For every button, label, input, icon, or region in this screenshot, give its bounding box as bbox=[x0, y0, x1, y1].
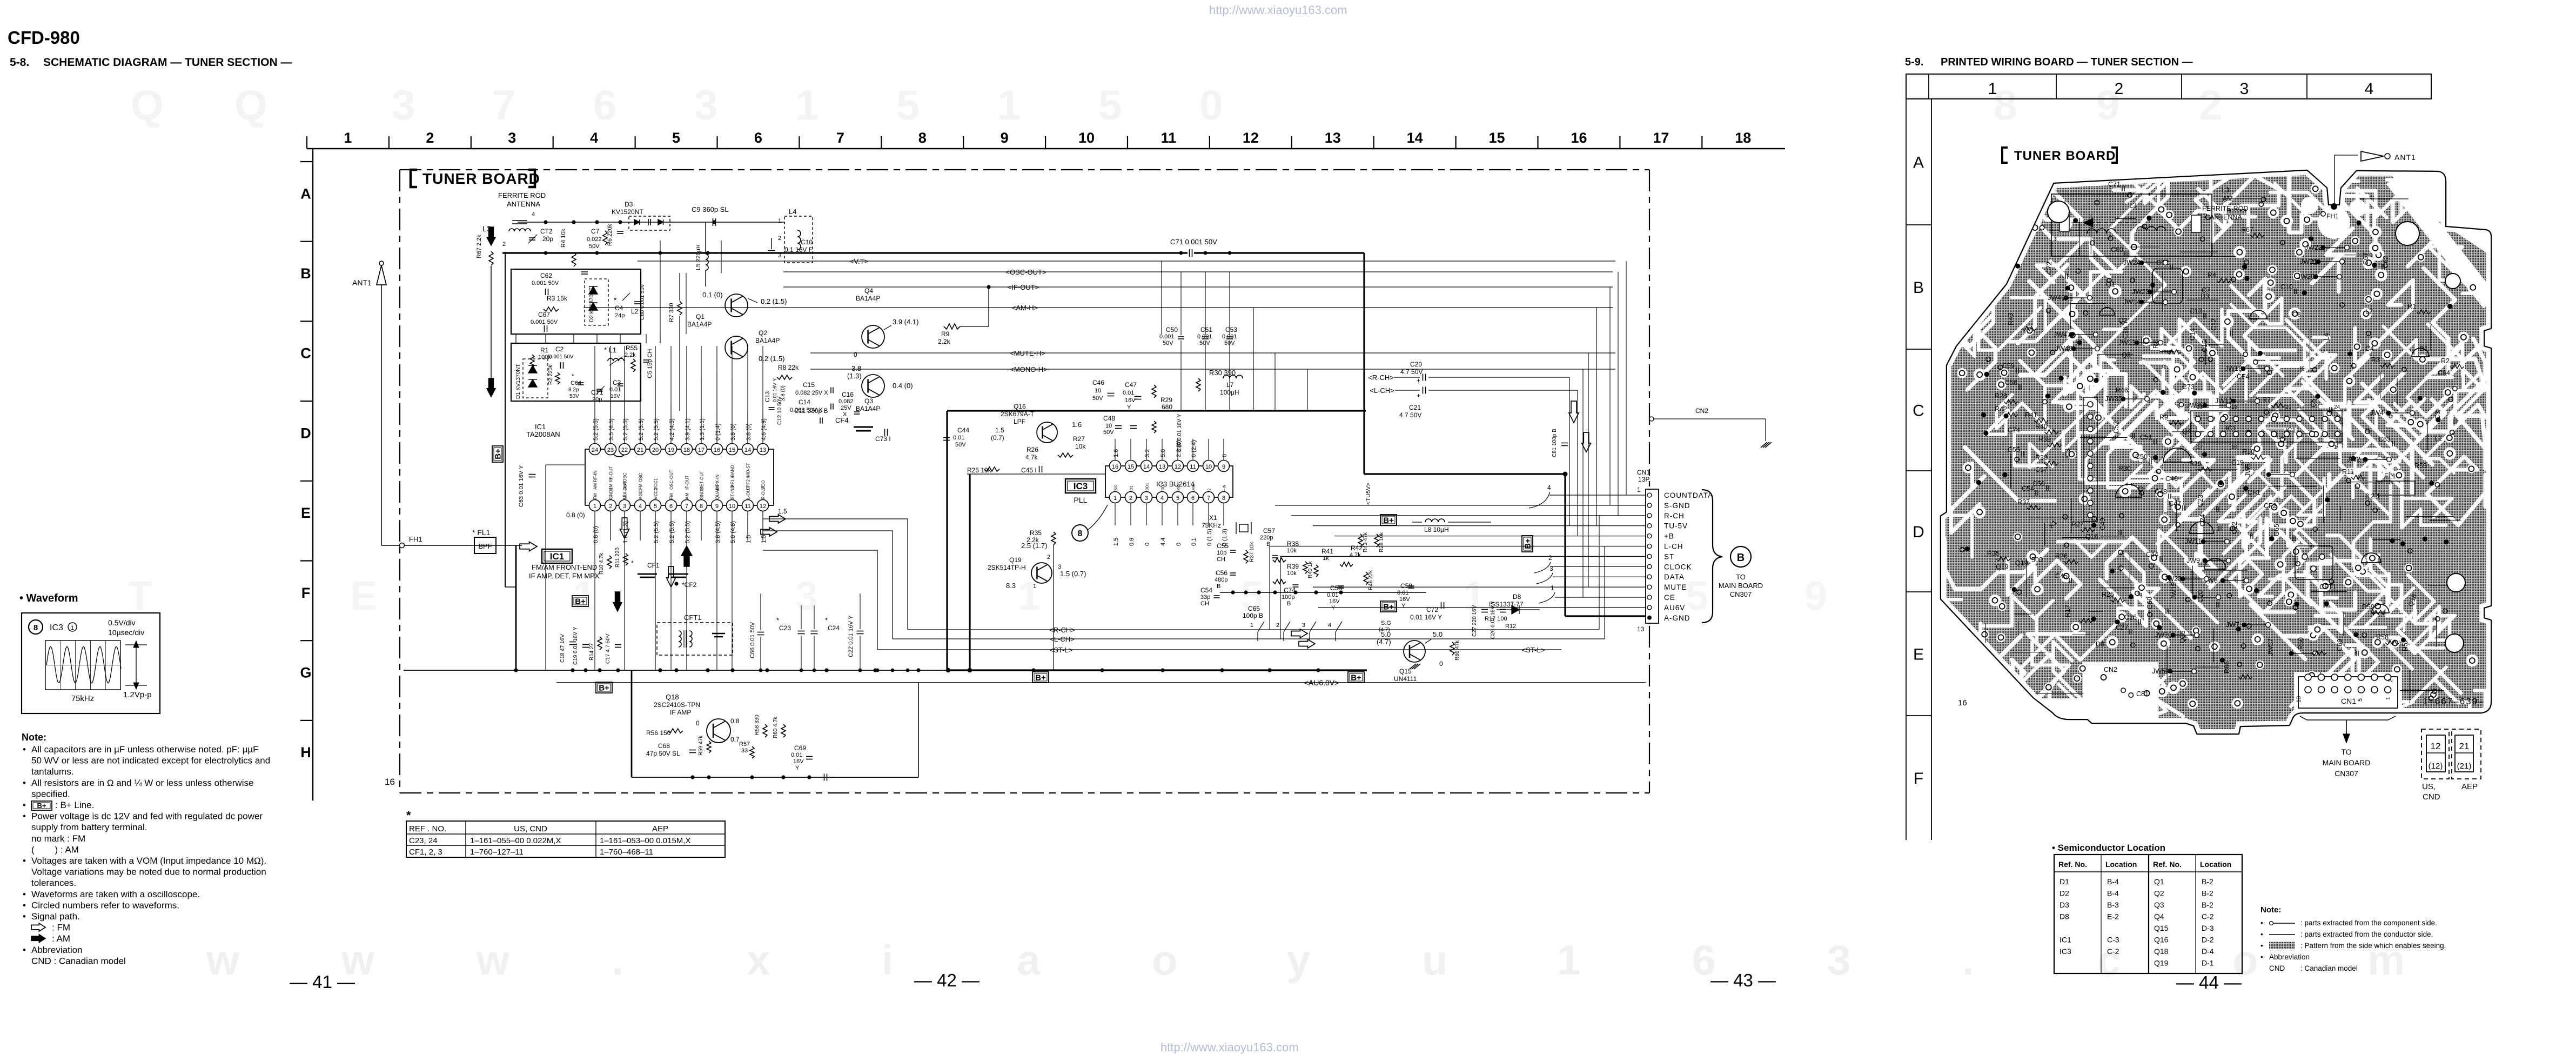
svg-text:Q3: Q3 bbox=[2122, 351, 2131, 359]
svg-text:3.8 (4.5): 3.8 (4.5) bbox=[715, 521, 721, 543]
svg-text:FM OSC: FM OSC bbox=[639, 473, 643, 490]
svg-text:C19 0.01 16V Y: C19 0.01 16V Y bbox=[573, 626, 579, 665]
svg-text:C64: C64 bbox=[2438, 369, 2450, 377]
svg-text:B+: B+ bbox=[494, 449, 503, 459]
wire R67 down bbox=[491, 266, 492, 378]
svg-text:3.9 (4.1): 3.9 (4.1) bbox=[893, 318, 918, 326]
svg-text:2SC2410S-TPN: 2SC2410S-TPN bbox=[654, 701, 700, 709]
svg-text:10: 10 bbox=[1095, 388, 1101, 394]
svg-text:JW21: JW21 bbox=[2300, 258, 2317, 265]
svg-text:JW18: JW18 bbox=[2225, 365, 2242, 372]
svg-text:3.2: 3.2 bbox=[1144, 449, 1151, 457]
svg-text:L3: L3 bbox=[2222, 186, 2229, 194]
svg-text:L2: L2 bbox=[2365, 308, 2373, 315]
svg-text:C13: C13 bbox=[764, 391, 771, 402]
wire stair R-CH from IC1 bbox=[763, 519, 908, 630]
wires into CN1 bbox=[1549, 495, 1646, 496]
svg-text:C46: C46 bbox=[2165, 475, 2178, 483]
misc long verticals right area bbox=[1599, 515, 1600, 630]
svg-text:1–161–053–00 0.015M,X: 1–161–053–00 0.015M,X bbox=[600, 836, 690, 845]
svg-text:o: o bbox=[1152, 936, 1178, 984]
svg-text:D1 KV1370NT: D1 KV1370NT bbox=[515, 364, 521, 399]
svg-text:2: 2 bbox=[1129, 495, 1132, 502]
svg-text:1: 1 bbox=[344, 130, 352, 146]
svg-text:• Waveform: • Waveform bbox=[19, 592, 78, 604]
svg-text:13: 13 bbox=[2296, 696, 2302, 703]
svg-text:B-2: B-2 bbox=[2202, 877, 2213, 886]
svg-text:20: 20 bbox=[2285, 404, 2292, 410]
svg-text:JW47: JW47 bbox=[2054, 331, 2071, 338]
svg-text:15: 15 bbox=[729, 447, 735, 453]
wire right side verticals to CN1 bbox=[1626, 261, 1627, 495]
svg-text:1.5: 1.5 bbox=[995, 426, 1004, 434]
svg-text:R41: R41 bbox=[2025, 411, 2037, 419]
svg-text:C2: C2 bbox=[555, 345, 564, 353]
svg-text:Waveforms are taken with a osc: Waveforms are taken with a oscilloscope. bbox=[31, 889, 200, 899]
resistor R9 2.2k bbox=[944, 324, 960, 329]
wire antenna cluster verticals bbox=[660, 241, 661, 334]
svg-text:12: 12 bbox=[1175, 464, 1181, 470]
svg-text:C62: C62 bbox=[540, 272, 552, 279]
pcb TO MAIN BOARD CN307 bbox=[2300, 716, 2396, 720]
svg-text:47p 50V SL: 47p 50V SL bbox=[646, 750, 680, 757]
svg-text:C10: C10 bbox=[2280, 283, 2293, 291]
svg-text:0.1 (0): 0.1 (0) bbox=[702, 291, 723, 299]
svg-text:2: 2 bbox=[2387, 679, 2394, 682]
svg-text:Q4: Q4 bbox=[864, 287, 873, 295]
svg-text:12: 12 bbox=[2431, 741, 2441, 751]
svg-text:2: 2 bbox=[426, 130, 434, 146]
svg-text:D8: D8 bbox=[2060, 912, 2069, 921]
pcb antenna box L3 bbox=[2051, 194, 2212, 256]
svg-text:50V: 50V bbox=[955, 442, 966, 448]
svg-text:L1: L1 bbox=[2434, 435, 2442, 442]
svg-text:— 43 —: — 43 — bbox=[1710, 970, 1776, 990]
svg-text:— 42 —: — 42 — bbox=[914, 970, 980, 990]
svg-text:(0.7): (0.7) bbox=[991, 434, 1004, 442]
svg-text:•: • bbox=[23, 811, 26, 822]
svg-text:2: 2 bbox=[1276, 622, 1279, 629]
svg-text:D3: D3 bbox=[2201, 292, 2209, 300]
svg-text:http://www.xiaoyu163.com: http://www.xiaoyu163.com bbox=[1160, 1040, 1299, 1054]
svg-text:C59: C59 bbox=[2002, 362, 2015, 370]
svg-text:10k: 10k bbox=[1287, 548, 1297, 554]
ground at CN2 bbox=[1761, 442, 1767, 448]
svg-text:: Pattern from the side which: : Pattern from the side which enables se… bbox=[2300, 942, 2446, 950]
svg-text:<V.T>: <V.T> bbox=[850, 257, 868, 265]
svg-text:0: 0 bbox=[854, 351, 857, 358]
svg-text:Voltage variations may be note: Voltage variations may be noted due to n… bbox=[31, 867, 266, 877]
wire thick verticals left bbox=[515, 545, 517, 670]
svg-text:C44: C44 bbox=[957, 426, 969, 434]
svg-text:C21: C21 bbox=[1409, 404, 1421, 411]
svg-text:5: 5 bbox=[896, 81, 920, 129]
svg-text:*CF2: *CF2 bbox=[682, 581, 697, 589]
svg-text:SCHEMATIC DIAGRAM — TUNER SECT: SCHEMATIC DIAGRAM — TUNER SECTION — bbox=[43, 56, 292, 69]
svg-text:*: * bbox=[614, 296, 617, 304]
svg-text:R41: R41 bbox=[1321, 548, 1333, 555]
wire thick rail to CN1 A-GND bbox=[1364, 473, 1565, 475]
svg-text:17: 17 bbox=[1653, 130, 1669, 146]
svg-text:Q1: Q1 bbox=[696, 313, 705, 321]
svg-text:C64: C64 bbox=[571, 380, 581, 386]
wire ANT1 to BPF horizontal bbox=[381, 545, 522, 546]
svg-text:.: . bbox=[612, 936, 623, 984]
pcb white clearance CN2 corner bbox=[2042, 662, 2158, 721]
svg-text:12: 12 bbox=[760, 503, 766, 510]
svg-text:BPF: BPF bbox=[478, 542, 492, 550]
svg-text:R7: R7 bbox=[2262, 396, 2271, 404]
svg-text:1: 1 bbox=[1988, 80, 1997, 98]
wire stair L-CH from IC1 bbox=[763, 531, 893, 639]
svg-text:1–760–127–11: 1–760–127–11 bbox=[470, 848, 524, 857]
svg-text:4: 4 bbox=[1160, 495, 1164, 502]
svg-text:0.9: 0.9 bbox=[1129, 538, 1135, 546]
svg-text:5.2 (5.5): 5.2 (5.5) bbox=[622, 418, 629, 441]
svg-text:BA1A4P: BA1A4P bbox=[687, 321, 712, 328]
svg-text:17: 17 bbox=[698, 447, 705, 453]
svg-text:7: 7 bbox=[1207, 495, 1210, 502]
svg-text:S-GND: S-GND bbox=[1664, 502, 1691, 510]
svg-text:D2: D2 bbox=[2060, 889, 2069, 898]
waveform Vp-p arrow bbox=[136, 645, 137, 685]
svg-text:C24: C24 bbox=[2199, 514, 2206, 526]
svg-text:50V: 50V bbox=[1163, 340, 1173, 346]
svg-text:<OSC-OUT>: <OSC-OUT> bbox=[1005, 268, 1046, 276]
svg-text:CF4: CF4 bbox=[2237, 373, 2250, 381]
svg-text:1.6: 1.6 bbox=[1072, 421, 1082, 429]
svg-text:C22 0.01 16V Y: C22 0.01 16V Y bbox=[848, 615, 854, 657]
wire cluster verticals to IC1 bbox=[515, 334, 516, 343]
svg-text:1.5: 1.5 bbox=[761, 535, 767, 543]
svg-text:13: 13 bbox=[760, 447, 766, 453]
svg-text:D3: D3 bbox=[2060, 900, 2069, 909]
schematic column ruler ticks and numbers bbox=[306, 136, 307, 149]
label IC3 PLL box bbox=[1065, 479, 1096, 493]
svg-text:R43: R43 bbox=[2007, 313, 2015, 325]
svg-text:Voltages are taken with a VOM: Voltages are taken with a VOM (Input imp… bbox=[31, 856, 266, 866]
svg-text:D3: D3 bbox=[625, 201, 633, 208]
wire thick vertical PLL inner bbox=[969, 474, 970, 670]
svg-text:3: 3 bbox=[694, 81, 717, 129]
svg-text:16V: 16V bbox=[611, 393, 620, 399]
svg-text:FH1: FH1 bbox=[409, 535, 422, 543]
svg-text:CN2: CN2 bbox=[1695, 407, 1708, 415]
svg-text:C23: C23 bbox=[2197, 495, 2204, 507]
svg-text:R28: R28 bbox=[1995, 392, 2007, 400]
svg-text:0.082 25V X: 0.082 25V X bbox=[795, 390, 828, 396]
svg-text:Q19: Q19 bbox=[1009, 556, 1022, 564]
svg-text:•: • bbox=[23, 744, 26, 755]
svg-text:C65: C65 bbox=[1248, 605, 1260, 612]
svg-text:C68: C68 bbox=[658, 742, 670, 750]
svg-text:1: 1 bbox=[593, 503, 596, 510]
svg-text:CN307: CN307 bbox=[1730, 590, 1752, 598]
svg-text:10: 10 bbox=[729, 503, 735, 510]
svg-text:1: 1 bbox=[71, 625, 74, 631]
svg-text:2: 2 bbox=[2199, 81, 2222, 129]
svg-text:C56: C56 bbox=[2032, 480, 2045, 488]
svg-text:R37 10k: R37 10k bbox=[1249, 542, 1255, 562]
svg-text:15: 15 bbox=[2231, 404, 2238, 410]
svg-text:R46: R46 bbox=[2116, 386, 2128, 394]
svg-text:C-3: C-3 bbox=[2107, 936, 2119, 944]
svg-text:4.7k: 4.7k bbox=[1350, 552, 1361, 558]
svg-text:JW22: JW22 bbox=[2305, 244, 2322, 251]
signal arrows open down right side bbox=[1569, 401, 1579, 423]
svg-text:C23: C23 bbox=[779, 624, 791, 632]
svg-text:IC3: IC3 bbox=[2060, 947, 2071, 956]
svg-text:6: 6 bbox=[593, 81, 616, 129]
svg-text:16V: 16V bbox=[1399, 596, 1410, 603]
svg-text:C11 330p B: C11 330p B bbox=[794, 407, 828, 415]
svg-text:Q2: Q2 bbox=[2154, 889, 2164, 898]
svg-text:F: F bbox=[301, 585, 311, 601]
svg-text:MAIN BOARD: MAIN BOARD bbox=[1719, 582, 1763, 590]
svg-text:20p: 20p bbox=[592, 396, 602, 403]
signal arrow open at IC1 L-OUT bbox=[761, 528, 777, 536]
svg-text:16: 16 bbox=[1571, 130, 1587, 146]
svg-text:FERRITE ROD: FERRITE ROD bbox=[498, 191, 546, 199]
svg-text:5.2 (5.5): 5.2 (5.5) bbox=[685, 521, 691, 543]
pcb grid header box bbox=[1906, 74, 2431, 99]
svg-text:R17 100: R17 100 bbox=[1485, 616, 1507, 622]
signal arrow FM into IC1 bbox=[520, 542, 537, 551]
svg-text:L4: L4 bbox=[2323, 333, 2330, 341]
svg-text:Q: Q bbox=[131, 81, 164, 129]
svg-text:Q1: Q1 bbox=[2106, 281, 2115, 288]
pcb white clearance CN1 area bbox=[2294, 672, 2402, 711]
svg-text:CH: CH bbox=[1200, 601, 1209, 607]
svg-text:R4: R4 bbox=[2208, 271, 2216, 279]
svg-text:C56: C56 bbox=[1216, 569, 1227, 577]
svg-text:+: + bbox=[1417, 377, 1420, 384]
svg-text:<TU5V>: <TU5V> bbox=[1365, 483, 1372, 505]
svg-text:Q16: Q16 bbox=[2154, 936, 2169, 944]
svg-text:C51: C51 bbox=[2140, 433, 2152, 441]
pcb white pads scattered bbox=[2445, 433, 2454, 443]
svg-text:B-2: B-2 bbox=[2202, 900, 2213, 909]
pcb transistor rings bbox=[2116, 484, 2142, 497]
svg-text:C53: C53 bbox=[2112, 421, 2120, 433]
svg-text:C4: C4 bbox=[615, 304, 623, 312]
wire signal line MUTE-H bbox=[810, 352, 1615, 353]
svg-text:TA2008AN: TA2008AN bbox=[526, 430, 560, 438]
svg-text:9: 9 bbox=[715, 503, 719, 510]
power tag B+ above CFT1 bbox=[572, 596, 588, 606]
svg-text:COUNTDATA: COUNTDATA bbox=[1664, 491, 1713, 499]
op-amp IC1 bottom pins bbox=[589, 500, 601, 511]
signal arrow AM down mid bbox=[487, 378, 495, 397]
svg-text:2: 2 bbox=[778, 235, 781, 242]
svg-text:Note:: Note: bbox=[2260, 905, 2281, 915]
svg-text:1–161–055–00 0.022M,X: 1–161–055–00 0.022M,X bbox=[470, 836, 561, 845]
svg-text:10: 10 bbox=[1205, 464, 1212, 470]
svg-text:50V: 50V bbox=[1092, 395, 1103, 402]
svg-text:5.2 (5.5): 5.2 (5.5) bbox=[669, 521, 675, 543]
svg-text:B+: B+ bbox=[37, 802, 46, 810]
svg-text:4: 4 bbox=[1328, 622, 1331, 629]
svg-text:All resistors are in Ω and ¼ W: All resistors are in Ω and ¼ W or less u… bbox=[31, 778, 253, 788]
junction dots top rail bbox=[544, 251, 548, 255]
svg-text:IC3: IC3 bbox=[50, 623, 63, 632]
svg-text:13: 13 bbox=[1325, 130, 1341, 146]
svg-text:50V: 50V bbox=[1199, 340, 1210, 346]
svg-text:R1: R1 bbox=[540, 346, 549, 354]
svg-text:C18 47 16V: C18 47 16V bbox=[560, 634, 566, 663]
svg-text:5.2 (5.5): 5.2 (5.5) bbox=[638, 418, 645, 441]
svg-text:0.01: 0.01 bbox=[1123, 390, 1134, 396]
svg-text:OSC-OUT: OSC-OUT bbox=[669, 470, 674, 490]
svg-text:JW11: JW11 bbox=[2185, 538, 2202, 545]
svg-text:8: 8 bbox=[1078, 529, 1083, 538]
svg-text:Y: Y bbox=[1331, 605, 1336, 611]
svg-text:16: 16 bbox=[714, 447, 720, 453]
svg-text:C55: C55 bbox=[1217, 542, 1229, 550]
svg-text:C8: C8 bbox=[2292, 311, 2301, 318]
svg-text:480p: 480p bbox=[1215, 577, 1227, 583]
svg-text:4.6 (4.9): 4.6 (4.9) bbox=[761, 418, 767, 441]
svg-text:3: 3 bbox=[1145, 495, 1148, 502]
svg-text:4: 4 bbox=[532, 211, 535, 218]
svg-text:R40: R40 bbox=[2035, 423, 2048, 430]
svg-text:w: w bbox=[206, 936, 239, 984]
svg-text:R27: R27 bbox=[1073, 435, 1085, 443]
wire ANT1 vertical bbox=[381, 285, 382, 545]
svg-text:JW57: JW57 bbox=[2267, 638, 2275, 656]
svg-text:K: K bbox=[2300, 365, 2305, 372]
svg-text:C46: C46 bbox=[1092, 379, 1104, 386]
svg-text:D8: D8 bbox=[1513, 593, 1521, 601]
svg-text:4.7 50V: 4.7 50V bbox=[1399, 411, 1421, 419]
svg-text:+: + bbox=[1417, 392, 1420, 399]
svg-text:1: 1 bbox=[2385, 697, 2392, 700]
svg-text:US, CND: US, CND bbox=[514, 824, 547, 833]
svg-text:2: 2 bbox=[2115, 80, 2124, 98]
svg-text:4.7 50V: 4.7 50V bbox=[1400, 368, 1423, 376]
svg-text:3: 3 bbox=[1058, 564, 1061, 570]
pcb small black ring pads bbox=[2352, 364, 2356, 368]
power tag B+ on bus bbox=[596, 682, 612, 693]
svg-text:0.5V/div: 0.5V/div bbox=[108, 618, 136, 627]
svg-text:50V: 50V bbox=[589, 243, 600, 250]
svg-text:B-3: B-3 bbox=[2107, 900, 2119, 909]
svg-text:R58 330: R58 330 bbox=[754, 715, 760, 735]
ref table border bbox=[406, 821, 725, 857]
svg-text:1.3 (1.1): 1.3 (1.1) bbox=[699, 418, 706, 441]
svg-text:y: y bbox=[1287, 936, 1310, 984]
ic IC3 top pins bbox=[1110, 461, 1121, 472]
wire thick rail corner down bbox=[1363, 253, 1365, 474]
svg-text:CT2: CT2 bbox=[540, 228, 553, 235]
svg-text:E-2: E-2 bbox=[2107, 912, 2119, 921]
svg-text:5: 5 bbox=[2285, 444, 2289, 450]
svg-text:JW14: JW14 bbox=[2123, 298, 2141, 306]
svg-text:L5 220µH: L5 220µH bbox=[695, 244, 702, 270]
svg-text:E: E bbox=[1913, 646, 1924, 664]
svg-text:Q2: Q2 bbox=[2118, 317, 2128, 324]
svg-text:GND2: GND2 bbox=[700, 487, 705, 499]
svg-text:20p: 20p bbox=[542, 235, 553, 243]
svg-text:C44: C44 bbox=[2146, 551, 2158, 558]
wire IC3 left connections bbox=[967, 473, 1105, 475]
op-amp IC1 bottom pin voltage labels bbox=[594, 511, 595, 541]
svg-text:•: • bbox=[23, 889, 26, 899]
svg-text:3.8 (0): 3.8 (0) bbox=[730, 423, 736, 441]
label IC1 function box bbox=[542, 549, 572, 563]
svg-text:D1: D1 bbox=[2060, 877, 2069, 886]
svg-text:12: 12 bbox=[1243, 130, 1259, 146]
svg-text:specified.: specified. bbox=[31, 789, 70, 799]
wire stubs left of CN1 descending bbox=[1269, 546, 1270, 630]
svg-text:C74: C74 bbox=[2008, 426, 2020, 434]
svg-text:R42: R42 bbox=[1351, 544, 1363, 552]
svg-text:C49 0.01 16V Y: C49 0.01 16V Y bbox=[1177, 413, 1183, 452]
svg-text:0.001 50V: 0.001 50V bbox=[549, 354, 574, 360]
svg-text:tolerances.: tolerances. bbox=[31, 878, 76, 888]
svg-text:IC3: IC3 bbox=[2064, 449, 2071, 459]
svg-text:C4: C4 bbox=[2365, 345, 2374, 352]
svg-text:<MUTE-H>: <MUTE-H> bbox=[1010, 349, 1045, 357]
svg-text:0: 0 bbox=[1439, 660, 1443, 668]
svg-text:11: 11 bbox=[1161, 130, 1177, 146]
pcb trimmer CT2 outline bbox=[2152, 268, 2183, 304]
svg-text:R12: R12 bbox=[1505, 623, 1516, 630]
svg-text:20: 20 bbox=[652, 447, 659, 453]
svg-text:C5: C5 bbox=[2310, 399, 2317, 408]
pcb white rim inside outline bbox=[1941, 171, 2491, 733]
svg-text:JW4: JW4 bbox=[2370, 409, 2384, 417]
svg-text:*: * bbox=[825, 616, 828, 624]
svg-text:3: 3 bbox=[623, 503, 626, 510]
svg-text:75KHz: 75KHz bbox=[1202, 522, 1221, 529]
svg-text:C24: C24 bbox=[828, 624, 840, 632]
semiconductor location table bbox=[2054, 855, 2242, 973]
svg-text:R9: R9 bbox=[941, 330, 950, 338]
svg-text:JW20: JW20 bbox=[2297, 273, 2315, 281]
svg-text:C20: C20 bbox=[2197, 590, 2204, 603]
svg-text:i: i bbox=[882, 936, 894, 984]
svg-text:AEP: AEP bbox=[2461, 782, 2478, 791]
svg-text:0.2 (1.5): 0.2 (1.5) bbox=[759, 355, 784, 363]
svg-text:R26: R26 bbox=[1027, 446, 1038, 453]
power tag B+ right side bbox=[1380, 515, 1397, 525]
svg-text:B-4: B-4 bbox=[2107, 889, 2119, 898]
svg-text:2: 2 bbox=[1047, 554, 1050, 561]
svg-text:50V: 50V bbox=[1103, 429, 1114, 436]
svg-text:220p: 220p bbox=[1260, 535, 1273, 541]
svg-text:*: * bbox=[572, 372, 574, 380]
svg-text:BA1A4P: BA1A4P bbox=[856, 405, 880, 412]
svg-text:R29: R29 bbox=[1160, 396, 1172, 404]
svg-text:C27 220 16V: C27 220 16V bbox=[1472, 605, 1478, 637]
signal arrow open down at IC1 pin3 bbox=[620, 518, 629, 538]
svg-text:— 41 —: — 41 — bbox=[290, 972, 355, 992]
svg-text:CF2: CF2 bbox=[2264, 502, 2277, 510]
wire verticals above IC1 pins bbox=[594, 346, 595, 411]
svg-text:R11 220: R11 220 bbox=[615, 547, 621, 568]
pcb filter FL1 box bbox=[2376, 481, 2415, 495]
svg-text:ANT1: ANT1 bbox=[352, 278, 372, 287]
svg-text:R60: R60 bbox=[2297, 637, 2305, 650]
svg-text:US,: US, bbox=[2422, 782, 2436, 791]
svg-text:C80: C80 bbox=[2111, 246, 2123, 254]
svg-text:AEP: AEP bbox=[652, 824, 668, 833]
svg-text:•: • bbox=[23, 911, 26, 922]
svg-text:ST: ST bbox=[1664, 552, 1674, 561]
schematic row ruler line bbox=[312, 149, 313, 800]
svg-text:MAIN BOARD: MAIN BOARD bbox=[2323, 758, 2371, 767]
